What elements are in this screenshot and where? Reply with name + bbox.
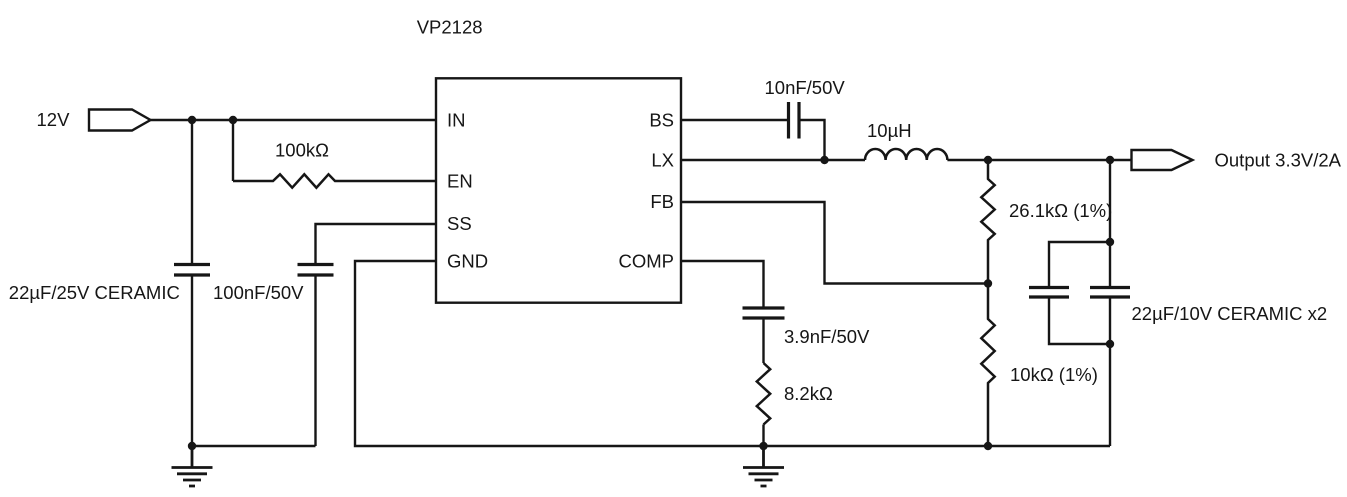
svg-text:LX: LX	[651, 150, 674, 171]
svg-text:100kΩ: 100kΩ	[275, 140, 329, 161]
svg-text:Output 3.3V/2A: Output 3.3V/2A	[1215, 150, 1342, 171]
svg-text:IN: IN	[447, 110, 466, 131]
wire input rail 12V to IN	[151, 119, 437, 121]
wire inductor to output flag	[947, 159, 1131, 161]
wire output node down through right cap	[1109, 160, 1111, 446]
resistor R3 10k vertical	[981, 284, 994, 447]
wire 3.9nF to 8.2k	[762, 318, 764, 363]
svg-text:100nF/50V: 100nF/50V	[213, 282, 304, 303]
wire 22uF input cap bottom lead	[191, 275, 193, 446]
svg-text:12V: 12V	[37, 109, 71, 130]
wire input ground rail	[192, 445, 316, 447]
svg-text:10µH: 10µH	[867, 120, 912, 141]
svg-text:10kΩ (1%): 10kΩ (1%)	[1010, 364, 1098, 385]
node comp ground	[759, 442, 767, 450]
svg-text:EN: EN	[447, 171, 473, 192]
svg-text:VP2128: VP2128	[417, 17, 483, 38]
node output at caps	[1106, 156, 1114, 164]
node BS cap at LX	[820, 156, 828, 164]
svg-text:BS: BS	[649, 110, 674, 131]
wire LX pin to inductor	[681, 159, 865, 161]
svg-text:22µF/10V CERAMIC x2: 22µF/10V CERAMIC x2	[1132, 303, 1328, 324]
svg-text:3.9nF/50V: 3.9nF/50V	[784, 326, 870, 347]
wire left output cap branch	[1049, 242, 1110, 344]
wire SS pin to 100nF cap	[316, 224, 437, 265]
node input ground	[188, 442, 196, 450]
svg-text:SS: SS	[447, 213, 472, 234]
capacitor C6 right 22uF/10V plates	[1090, 288, 1130, 298]
node input rail junction 2	[229, 116, 237, 124]
capacitor C3 10nF/50V plates	[789, 102, 800, 139]
wire 22uF input cap top lead	[191, 120, 193, 265]
wire EN branch vertical	[232, 120, 234, 181]
resistor R4 8.2k vertical	[757, 363, 770, 425]
capacitor C4 3.9nF/50V plates	[743, 308, 785, 318]
wire COMP pin to 3.9nF cap	[681, 261, 764, 308]
op-amp U1 VP2128 IC body	[436, 78, 681, 302]
inductor L1 10uH	[865, 149, 947, 160]
node cap branch top	[1106, 238, 1114, 246]
node FB divider	[984, 279, 992, 287]
input connector flag 12V	[89, 110, 151, 131]
resistor R2 26.1k vertical	[981, 160, 994, 284]
node 10k ground	[984, 442, 992, 450]
capacitor C5 left 22uF/10V plates	[1029, 288, 1069, 298]
wire 100nF bottom lead	[314, 275, 316, 446]
svg-text:FB: FB	[650, 191, 674, 212]
output connector flag Output 3.3V/2A	[1132, 150, 1193, 170]
svg-text:26.1kΩ (1%): 26.1kΩ (1%)	[1009, 200, 1112, 221]
resistor R1 100k zigzag	[233, 174, 436, 187]
node LX output at 26.1k	[984, 156, 992, 164]
node cap branch bottom	[1106, 340, 1114, 348]
svg-text:GND: GND	[447, 251, 488, 272]
svg-text:COMP: COMP	[619, 251, 675, 272]
wire 10nF cap to LX node	[799, 120, 825, 160]
node input rail junction 1	[188, 116, 196, 124]
ground symbol input	[172, 446, 213, 486]
wire GND pin to bottom ground rail	[355, 261, 1110, 446]
svg-text:10nF/50V: 10nF/50V	[765, 77, 846, 98]
svg-text:22µF/25V CERAMIC: 22µF/25V CERAMIC	[9, 282, 180, 303]
svg-text:8.2kΩ: 8.2kΩ	[784, 383, 833, 404]
capacitor C2 100nF/50V plates	[298, 265, 334, 276]
ground symbol comp	[743, 446, 784, 486]
wire BS pin to 10nF cap	[681, 119, 789, 121]
wire FB pin to divider node	[681, 202, 988, 284]
capacitor C1 22uF/25V plates	[174, 265, 210, 276]
wire 8.2k bottom lead	[762, 425, 764, 447]
